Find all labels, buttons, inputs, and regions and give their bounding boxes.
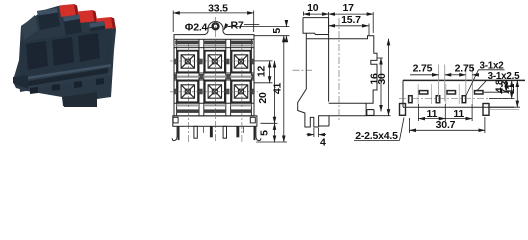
svg-text:2.75: 2.75 [455,62,475,74]
dim 15.7 [329,14,369,36]
front view body [174,21,254,115]
svg-text:R7: R7 [230,20,243,32]
svg-text:10: 10 [307,2,319,14]
svg-text:2.75: 2.75 [413,62,433,74]
photo of connector [13,4,116,107]
svg-text:30: 30 [376,73,388,85]
cell col1 row2 [178,81,199,103]
column edge lines [176,39,178,116]
cell col2 row2 [205,81,225,103]
cell col1 row1 [178,51,199,73]
dim 4.8 [484,79,509,93]
svg-text:11: 11 [506,83,517,94]
face outline [174,39,254,116]
dim 5 bottom [256,123,287,142]
red button 1 [59,4,76,17]
dim 10 [303,2,328,15]
svg-text:Φ2.4: Φ2.4 [185,22,208,34]
side pin box [367,110,374,116]
side view outline [298,18,377,127]
label R7 [224,20,259,32]
dim 2.75 first [410,62,451,101]
front view cells [178,51,251,103]
bottom view centerline [399,98,508,100]
red button 2 [78,10,95,23]
cell col2 row1 [205,51,225,73]
dim 12 [254,61,273,83]
label 3-1x2.5 [477,71,520,91]
svg-text:5: 5 [271,28,283,34]
dim 30.7 [409,117,485,133]
center foot [62,92,97,107]
dim 16 [368,58,383,112]
svg-text:4: 4 [320,137,326,149]
front columns [26,41,48,70]
dim 2.75 second [452,62,478,95]
dim 5 top [228,21,289,42]
dim 11 11 horizontal [419,104,473,121]
straight pins [194,126,197,138]
rail foot [13,75,28,89]
side centerline [293,18,340,121]
vertical slots 1x2.5 [409,96,466,103]
svg-text:30.7: 30.7 [436,119,456,131]
teeth [30,87,38,94]
horizontal slots 1x2 [419,91,483,94]
flange [19,64,111,92]
dim 20 [257,61,277,123]
svg-text:15.7: 15.7 [341,14,361,26]
thin ticks [203,127,205,133]
dark housing 1 [37,8,60,30]
cell col3 row1 [232,51,251,73]
right tab 2.5x4.5 [483,104,489,116]
mounting hole [213,23,219,29]
svg-text:41: 41 [271,83,283,95]
svg-text:12: 12 [255,66,267,78]
dim 4 [307,128,327,149]
red button 3 [96,17,113,30]
label phi2.4 [185,22,213,34]
front view centerlines [170,17,258,143]
left tab 2.5x4.5 [400,104,406,116]
svg-text:5: 5 [259,130,271,136]
dark housing 3 [89,21,107,41]
front face [20,28,112,78]
hook pin left [172,126,177,140]
dim 7.3 [489,80,515,98]
dim 30 [366,39,390,116]
bottom view strip [400,80,526,115]
tab right ext [489,108,519,110]
body silhouette [13,5,116,108]
thin extension verticals [418,84,472,104]
dark housing 2 [63,15,82,36]
top dark bands [175,41,253,45]
svg-text:20: 20 [257,92,269,104]
dim 17 [329,2,374,33]
mid band tabs [174,59,254,95]
top face sheen [21,15,38,40]
cell col3 row2 [232,81,251,103]
row separators [175,76,254,78]
label 2-2.5x4.5 [354,118,404,142]
top plate with mounting ear [174,21,254,39]
hook pin right [256,126,261,140]
front view base [172,116,261,141]
label 3-1x2 [466,60,505,95]
dim 41 [271,36,284,142]
svg-text:33.5: 33.5 [208,2,228,14]
dim 33.5 [173,2,254,32]
svg-text:17: 17 [343,2,355,14]
dim 11 vertical [489,80,520,107]
